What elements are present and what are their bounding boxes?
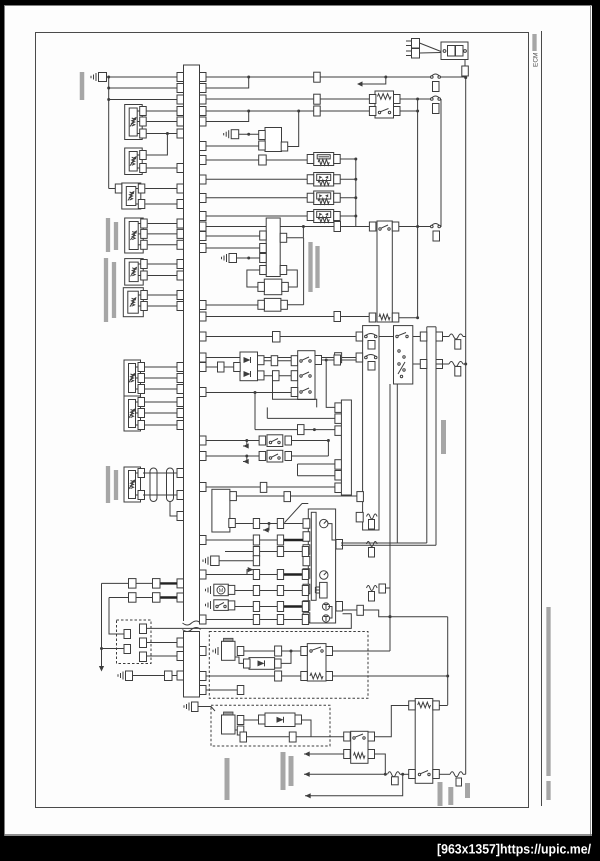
connector bbox=[314, 106, 321, 116]
node bbox=[416, 110, 419, 113]
wire K2 BR bbox=[399, 317, 418, 319]
wire S9b bbox=[143, 494, 177, 496]
vert x326.2 down bbox=[326, 360, 335, 407]
ECM bus pin (right) bbox=[200, 73, 207, 82]
wire S4 to bus bbox=[148, 233, 177, 235]
MB tab R2 bbox=[229, 519, 236, 528]
KB tab BL bbox=[409, 770, 416, 779]
TB1 tab L2 bbox=[356, 353, 363, 362]
wire SW2 out bbox=[292, 455, 329, 457]
VB3 tab L bbox=[307, 193, 314, 202]
connector row y336.5 bbox=[273, 332, 281, 343]
connector below B3 bbox=[433, 231, 440, 241]
node bbox=[354, 178, 357, 181]
conn y517 bbox=[356, 512, 363, 522]
wire row y456 bus-SW2 bbox=[206, 455, 259, 457]
connector bbox=[335, 353, 342, 363]
stub arrow row1 bbox=[243, 441, 247, 447]
shield loop 2 bbox=[167, 468, 174, 502]
loop right x297.3 bbox=[287, 270, 298, 287]
trunk x355.8 bbox=[355, 159, 357, 227]
gauge wire internal 1 bbox=[328, 524, 336, 540]
diode pair box D2 bbox=[240, 352, 258, 381]
wire bbox=[400, 773, 409, 775]
K1 tab BR bbox=[394, 107, 401, 116]
gauge box TG tab2 bbox=[335, 414, 342, 424]
wire S3 to bus bbox=[145, 203, 177, 205]
tall box TB2 bbox=[426, 327, 428, 543]
node bbox=[416, 98, 419, 101]
ground G2 bbox=[228, 130, 230, 138]
wire bus row y392.5 bbox=[206, 392, 291, 394]
SWB tab BR bbox=[326, 672, 333, 681]
tall box TB1 bbox=[363, 326, 379, 530]
fuse3 link to trunk bbox=[386, 587, 391, 589]
ECM bus pin (right) bbox=[200, 117, 207, 126]
loop wire below SB2 bbox=[273, 381, 317, 408]
connector bbox=[314, 94, 321, 104]
wire row y99.5 bus to relay K1 bbox=[206, 98, 369, 100]
node bbox=[354, 215, 357, 218]
K2 tab BR bbox=[392, 313, 399, 322]
gauge assembly box TG bbox=[341, 400, 351, 495]
ECM bus pin (right) bbox=[200, 536, 207, 545]
ECM bus pin (right) bbox=[200, 212, 207, 221]
wire TC b bbox=[298, 475, 335, 477]
wire y418.4 bbox=[267, 417, 335, 419]
panel inner tab 2 bbox=[336, 602, 343, 612]
wire S9a bbox=[143, 472, 177, 474]
connector bbox=[455, 340, 461, 350]
gauge T2 bbox=[322, 615, 329, 622]
label key switch bbox=[465, 783, 470, 798]
ECM bus pin lower (left) bbox=[177, 638, 184, 647]
dashed junction box DL bbox=[117, 620, 152, 664]
VB4 tab L bbox=[307, 212, 314, 221]
label lamp bbox=[289, 756, 294, 786]
conn bbox=[240, 732, 247, 742]
connector bbox=[284, 492, 291, 502]
ECM bus pin (right) bbox=[200, 312, 207, 321]
fuse connector bbox=[369, 520, 375, 530]
title separator line bbox=[541, 31, 543, 806]
thick wire segment bbox=[160, 596, 177, 598]
wire DD1 out bbox=[281, 651, 291, 663]
K2 tab TL bbox=[369, 222, 376, 231]
ECM bus pin (left) bbox=[177, 374, 184, 383]
ECM bus pin (right) bbox=[200, 615, 207, 624]
wire row y316.5 bus bbox=[206, 316, 334, 318]
node bbox=[327, 439, 330, 442]
ECM bus pin (right) bbox=[200, 452, 207, 461]
SB2 tab L3 bbox=[291, 388, 298, 397]
wire row y429.6 bbox=[255, 429, 335, 431]
VB3 tab R bbox=[334, 193, 341, 202]
SWB tab TL bbox=[301, 647, 308, 656]
sensor S7 (upper of pair) bbox=[124, 360, 141, 396]
switch box SW2 bbox=[267, 450, 283, 462]
fuse row y364 bbox=[449, 362, 463, 367]
ECM bus pin (right) bbox=[200, 232, 207, 241]
node bbox=[416, 225, 419, 228]
ground conn G4 bbox=[211, 556, 220, 566]
connector row y226.5 bbox=[334, 222, 341, 232]
stub arrow row2 bbox=[243, 456, 247, 462]
label pump bbox=[281, 752, 286, 790]
wire row y111 bus to K1 bbox=[206, 110, 369, 112]
wire S7 to bus bbox=[145, 377, 177, 379]
wire row y226.5 bbox=[206, 226, 334, 228]
node bbox=[401, 773, 404, 776]
ground G1 bbox=[95, 73, 97, 81]
node bbox=[416, 316, 419, 319]
wire trunk to S3 bbox=[109, 188, 116, 190]
ECM bus pin (right) bbox=[200, 363, 207, 372]
wire SW1 out bbox=[292, 440, 329, 442]
diode box DD2 bbox=[265, 713, 295, 727]
panel pin bbox=[303, 519, 310, 529]
connector bbox=[277, 519, 283, 529]
wire S6 to bus bbox=[148, 294, 177, 296]
switch box SWB bbox=[307, 644, 326, 681]
wire S5 to bus bbox=[148, 263, 177, 265]
connector bbox=[253, 615, 259, 625]
fuse tab bbox=[379, 584, 386, 593]
wire bus-TB1 row2 bbox=[206, 357, 335, 359]
fuse bottom right bbox=[450, 772, 463, 777]
wire bbox=[291, 495, 357, 497]
paper edge top bbox=[4, 5, 592, 7]
ECM bus pin (left) bbox=[177, 164, 184, 173]
ECM bus pin (left) bbox=[177, 271, 184, 280]
connector bbox=[129, 593, 137, 603]
K1 tab TR bbox=[394, 95, 401, 104]
B1 tab L1 bbox=[259, 131, 266, 140]
wire TB2 row y364 bbox=[436, 363, 449, 365]
wire row y606.5 bbox=[235, 606, 303, 608]
DL tab e bbox=[140, 652, 147, 662]
wire bus to B1 L2 bbox=[206, 145, 259, 147]
panel inner tab 1 bbox=[336, 540, 343, 550]
relay KC box bbox=[351, 731, 368, 763]
ECM bus pin (left) bbox=[177, 129, 184, 138]
INJ1 tab bbox=[237, 647, 244, 656]
link x328.4 bbox=[327, 441, 329, 457]
CB1 tab L3 bbox=[260, 254, 267, 263]
paper edge bottom bbox=[4, 834, 592, 836]
node bbox=[446, 675, 449, 678]
ECM bus pin (left) bbox=[177, 117, 184, 126]
CB3 tab L bbox=[258, 300, 265, 309]
wire S1 to bus bbox=[147, 110, 177, 112]
connector bbox=[334, 355, 341, 365]
ECM bus pin (left) bbox=[177, 363, 184, 372]
ECM bus pin (left) bbox=[177, 240, 184, 249]
wire row y560.7 bbox=[219, 560, 260, 562]
sensor S9 (2-wire shielded) bbox=[124, 467, 141, 502]
node bbox=[107, 87, 110, 90]
connector bbox=[271, 356, 278, 366]
SB2 out wire bbox=[322, 359, 335, 361]
wire row y551.5 bbox=[225, 551, 303, 553]
connector bbox=[277, 547, 283, 557]
wire S5 to bus bbox=[148, 275, 177, 277]
connector bbox=[455, 367, 461, 377]
sensor box CB3 bbox=[264, 298, 281, 311]
node bbox=[325, 359, 328, 362]
D2 tab L bbox=[234, 363, 241, 372]
ECM bus pin (right) bbox=[200, 332, 207, 341]
wire bbox=[237, 257, 260, 259]
connector bbox=[277, 602, 283, 612]
gauge box TG tab1 bbox=[335, 403, 342, 413]
TB1 tab L1 bbox=[356, 332, 363, 341]
ECM bus pin lower (right) bbox=[200, 672, 207, 681]
node bbox=[389, 615, 392, 618]
connector row y316.5 bbox=[334, 312, 341, 322]
wire SB1-TB2 bbox=[413, 336, 421, 338]
shield loop 1 bbox=[150, 468, 157, 502]
sensor S3 bbox=[122, 183, 141, 209]
DL tab a bbox=[124, 630, 131, 639]
node bbox=[247, 110, 250, 113]
connector bbox=[253, 535, 259, 545]
connector bbox=[357, 605, 364, 615]
connector below breaker bbox=[433, 82, 440, 92]
svg-text:ECM: ECM bbox=[533, 53, 540, 67]
DD2 tab L bbox=[259, 715, 266, 724]
KB tab TR bbox=[433, 701, 440, 710]
connector bbox=[357, 492, 364, 502]
INJ2 tab bbox=[237, 716, 244, 725]
ground connector bbox=[99, 73, 107, 82]
title label ECM circuit bbox=[532, 34, 536, 51]
cam label bbox=[308, 242, 312, 292]
connector bbox=[291, 371, 298, 381]
ECM bus pin (left) bbox=[177, 421, 184, 430]
relay K2 tall box bbox=[377, 221, 392, 322]
connector bbox=[302, 586, 308, 596]
fuse bbox=[367, 514, 378, 519]
wire S2 to bus bbox=[147, 167, 177, 169]
B1 tab R bbox=[281, 142, 288, 151]
wire S4 to bus bbox=[148, 223, 177, 225]
arrow down bbox=[99, 666, 104, 672]
panel pin bbox=[303, 556, 310, 566]
node trunk bbox=[464, 363, 467, 366]
ECM bus pin (left) bbox=[177, 107, 184, 116]
ECM bus pin (left) bbox=[177, 291, 184, 300]
wire bus-D2 bbox=[206, 366, 234, 368]
connector bbox=[253, 519, 259, 529]
ground G5 bbox=[210, 586, 212, 594]
node trunk top bbox=[107, 76, 110, 79]
ECM bus pin lower (right) bbox=[200, 647, 207, 656]
connector bbox=[129, 579, 137, 589]
node bbox=[384, 773, 387, 776]
ECM bus break squiggle bbox=[182, 621, 201, 631]
diode box DD1 bbox=[249, 658, 275, 670]
gauge T1 bbox=[322, 603, 329, 610]
ECM bus pin (left) bbox=[177, 491, 184, 500]
conn below fuse bbox=[392, 777, 399, 785]
trunk left sensors bbox=[108, 77, 110, 189]
ECM bus pin (left) bbox=[177, 84, 184, 93]
trunk x397.3 bbox=[396, 384, 398, 544]
wire INJ1 b bbox=[235, 657, 244, 663]
svg-text:[963x1357]https://upic.me/: [963x1357]https://upic.me/ bbox=[437, 842, 591, 857]
wire bbox=[440, 98, 443, 100]
node bbox=[247, 133, 250, 136]
ECM connector bus upper bbox=[184, 65, 200, 622]
wire SWB TR bbox=[333, 650, 391, 652]
wire K1 out bottom bbox=[400, 110, 418, 112]
node bbox=[254, 391, 257, 394]
ground G9 bbox=[188, 703, 190, 711]
connector bbox=[277, 535, 283, 545]
trunk x101.5 bbox=[101, 583, 103, 669]
node S1 link bbox=[166, 132, 169, 135]
panel pin bbox=[303, 584, 310, 594]
trunk x447.7 bbox=[447, 617, 449, 705]
battery pin connector 2 bbox=[412, 49, 420, 59]
ECM bus pin (right) bbox=[200, 107, 207, 116]
ECM bus pin (right) bbox=[200, 175, 207, 184]
wire S6 to bus bbox=[148, 305, 177, 307]
trunk x390 bbox=[389, 384, 391, 617]
node main B+ bbox=[464, 76, 467, 79]
component box VB3 bbox=[314, 191, 334, 205]
wire bus row y487.5 bbox=[206, 486, 267, 488]
ground G3 bbox=[226, 254, 228, 262]
wire D2 r1 bbox=[264, 360, 291, 362]
node bbox=[100, 647, 103, 650]
wire K2 TR to trunk bbox=[399, 226, 431, 228]
node bbox=[302, 225, 305, 228]
wire bbox=[172, 675, 177, 677]
DL tab d bbox=[140, 638, 147, 648]
connector bbox=[218, 362, 225, 372]
ECM bus pin (left) bbox=[177, 229, 184, 238]
connector bbox=[302, 615, 308, 625]
VB2 tab L bbox=[307, 175, 314, 184]
component box VB4 bbox=[314, 210, 334, 223]
tab column TCc bbox=[335, 483, 342, 493]
CB3 tab R bbox=[281, 300, 288, 309]
ECM bus pin (left) bbox=[177, 219, 184, 228]
wire S7 to bus bbox=[145, 366, 177, 368]
ground G4 bbox=[207, 557, 209, 565]
connector bbox=[314, 72, 321, 82]
gauge circle 1 bbox=[320, 519, 328, 527]
ECM bus pin (left) bbox=[177, 579, 184, 588]
ECM bus pin (left) bbox=[177, 184, 184, 193]
component box VB1 bbox=[314, 153, 334, 166]
connector row y160 bbox=[259, 155, 267, 165]
ECM bus pin lower (left) bbox=[177, 671, 184, 680]
tab column TCb bbox=[335, 471, 342, 481]
wire to main node bbox=[464, 76, 466, 78]
gauge box TG tab3 bbox=[335, 426, 342, 436]
wire S1 to bus bbox=[147, 133, 177, 135]
label battery bbox=[448, 787, 453, 805]
wire y597.5 bbox=[109, 597, 177, 599]
ECM bus pin (left) bbox=[177, 398, 184, 407]
wire bus y676 to SWB bbox=[206, 675, 301, 677]
wire SWB BR out bbox=[333, 675, 448, 677]
wire MB r1 bbox=[236, 495, 284, 497]
node bbox=[290, 650, 293, 653]
fuel temp label bbox=[104, 258, 108, 322]
thick wire segment bbox=[284, 573, 303, 575]
wire INJ2 b bbox=[235, 729, 237, 731]
wire bbox=[244, 719, 265, 721]
ECM bus pin (right) bbox=[200, 84, 207, 93]
ECM bus pin (right) bbox=[200, 570, 207, 579]
wire battery to fusebox bbox=[420, 43, 442, 52]
TB2 tab R2 bbox=[436, 360, 443, 369]
conn bbox=[165, 671, 173, 681]
node bbox=[354, 196, 357, 199]
D2 tab R1 bbox=[258, 356, 265, 365]
wire bus-CB1 b bbox=[206, 247, 260, 249]
TB2 tab L2 bbox=[420, 360, 427, 369]
panel pin bbox=[303, 569, 310, 579]
diagonal wire bbox=[285, 504, 303, 523]
wire fusebox down bbox=[464, 60, 466, 67]
CB2 tab R bbox=[282, 282, 289, 291]
connector bbox=[273, 371, 280, 381]
ECM bus pin (left) bbox=[177, 73, 184, 82]
engine ground label bbox=[80, 72, 85, 100]
panel inner rail bbox=[311, 512, 316, 600]
KC tab TR bbox=[368, 732, 375, 741]
wire row y590.5 bbox=[235, 590, 303, 592]
wire ground to bus bbox=[107, 76, 178, 78]
ECM bus pin (left) bbox=[177, 200, 184, 209]
conn below fuse r bbox=[456, 778, 462, 786]
trunk x417.6 bbox=[417, 99, 419, 318]
wire bbox=[441, 76, 466, 78]
ECM bus pin (right) bbox=[200, 353, 207, 362]
conn bbox=[275, 646, 282, 656]
wire TB1-SB1 bbox=[379, 336, 394, 338]
wire S7 to bus bbox=[145, 388, 177, 390]
VB1 tab L bbox=[307, 155, 314, 164]
ground connector bbox=[229, 254, 237, 263]
wire bottom row y774.3 left bbox=[304, 773, 387, 775]
node bbox=[354, 158, 357, 161]
ECM bus pin (left) bbox=[177, 385, 184, 394]
connector bbox=[277, 586, 283, 596]
wire bbox=[239, 133, 259, 135]
CB1 tab L4 bbox=[260, 266, 267, 275]
ECM bus pin lower (right) bbox=[200, 686, 207, 695]
sensor S4 (3-wire) bbox=[125, 218, 144, 253]
wire CB3 R bbox=[287, 304, 303, 306]
wire KC BR down bbox=[375, 754, 386, 774]
breaker B3 bbox=[431, 225, 434, 228]
thick wire segment bbox=[160, 582, 177, 584]
panel pin bbox=[303, 532, 310, 542]
wire bbox=[109, 87, 177, 89]
INJ2 tab b bbox=[237, 726, 244, 735]
wire TC a bbox=[298, 463, 335, 465]
ECM bus pin (left) bbox=[177, 409, 184, 418]
fuse bbox=[367, 586, 378, 591]
gauge circle 2 bbox=[320, 571, 328, 579]
wire S4 to bus bbox=[148, 244, 177, 246]
